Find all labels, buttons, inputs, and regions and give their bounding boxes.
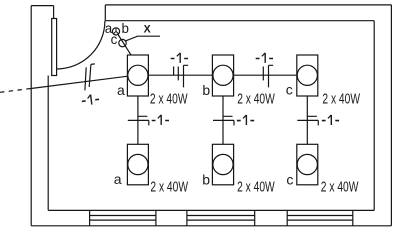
svg-text:b: b xyxy=(122,21,129,36)
svg-text:2 x 40W: 2 x 40W xyxy=(322,91,360,107)
svg-text:2 x 40W: 2 x 40W xyxy=(150,91,188,107)
svg-text:X: X xyxy=(144,23,151,35)
svg-text:2 x 40W: 2 x 40W xyxy=(150,179,188,195)
svg-text:2 x 40W: 2 x 40W xyxy=(321,179,359,195)
svg-text:2 x 40W: 2 x 40W xyxy=(237,179,275,195)
svg-text:b: b xyxy=(202,171,210,187)
svg-text:c: c xyxy=(286,82,293,98)
svg-text:a: a xyxy=(117,82,125,98)
svg-text:c: c xyxy=(111,32,118,47)
svg-text:a: a xyxy=(114,171,122,187)
svg-text:2 x 40W: 2 x 40W xyxy=(237,91,275,107)
svg-text:b: b xyxy=(202,82,210,98)
svg-text:c: c xyxy=(286,172,293,188)
